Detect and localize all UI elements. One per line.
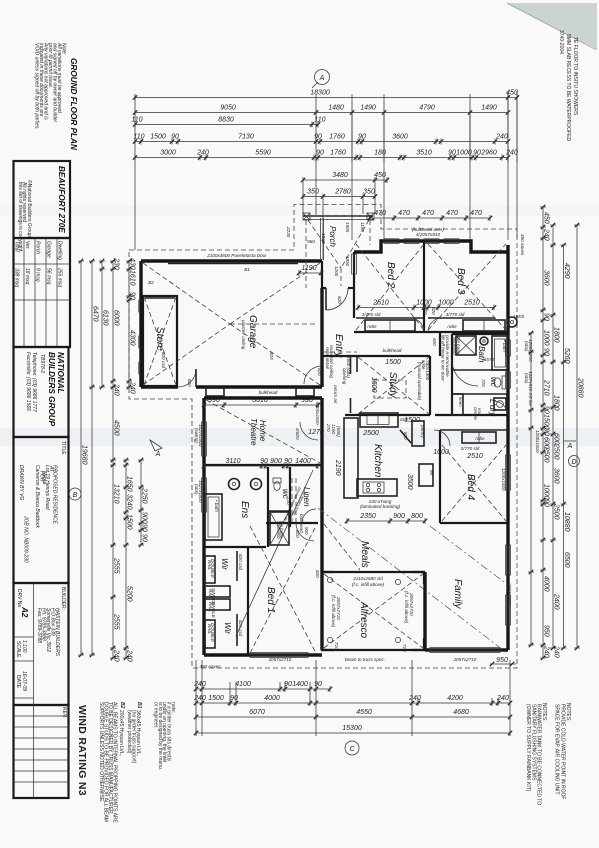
svg-text:A: A (567, 443, 573, 450)
svg-text:1000: 1000 (543, 330, 550, 346)
fixture: ens basins (229, 479, 240, 490)
alfresco posts (322, 638, 334, 650)
porch posts (303, 213, 310, 220)
svg-text:450: 450 (543, 212, 550, 224)
svg-text:(weather protected): (weather protected) (126, 710, 132, 754)
svg-text:240: 240 (196, 149, 209, 156)
svg-text:DRAWN BY VG: DRAWN BY VG (18, 465, 24, 500)
svg-text:350: 350 (363, 188, 375, 195)
kitchen island cooktop (357, 479, 397, 496)
svg-text:3/770 sld: 3/770 sld (362, 312, 381, 317)
svg-text:270: 270 (326, 423, 331, 432)
bulkhead row above home theatre (206, 388, 224, 396)
svg-text:3240: 3240 (126, 494, 133, 510)
wall: bed2/bed3 divider (423, 241, 425, 332)
svg-text:TE FLOOR TO INSITU SHOWERS: TE FLOOR TO INSITU SHOWERS (572, 37, 578, 116)
wall: alfresco (322, 571, 425, 573)
svg-text:470: 470 (398, 210, 410, 217)
svg-text:2230: 2230 (286, 226, 291, 238)
svg-text:HWS: HWS (514, 314, 526, 319)
svg-text:3000: 3000 (160, 149, 176, 156)
dashed diagonals study (358, 357, 429, 414)
svg-text:90: 90 (141, 524, 148, 532)
svg-text:1000: 1000 (433, 449, 449, 456)
svg-text:90: 90 (284, 458, 292, 465)
svg-text:Family: Family (452, 579, 463, 609)
section marker A top (315, 70, 330, 85)
wc door arc (452, 360, 478, 386)
svg-text:240: 240 (543, 228, 550, 241)
svg-text:2500: 2500 (543, 446, 550, 463)
svg-text:(f.c. infill above): (f.c. infill above) (331, 595, 336, 628)
svg-text:470: 470 (446, 210, 458, 217)
svg-text:4000: 4000 (543, 576, 550, 592)
svg-text:1570: 1570 (484, 357, 495, 362)
title block: builder box (14, 583, 69, 705)
windows left wall (202, 422, 207, 456)
wall: porch/entry front (322, 287, 326, 289)
wall: main top (bed2/bed3) with jog (354, 241, 508, 252)
svg-text:robe: robe (367, 324, 377, 329)
svg-text:refer detail: refer detail (325, 347, 330, 370)
svg-text:TB978-2: TB978-2 (39, 354, 45, 373)
title block: NATIONAL BUILDERS GROUP box (14, 347, 69, 437)
porch pier wall (321, 261, 323, 288)
svg-text:470: 470 (470, 210, 482, 217)
svg-text:240: 240 (193, 695, 206, 702)
svg-text:600: 600 (400, 417, 408, 422)
title block: project title box (14, 437, 69, 583)
garage left wall vents (139, 300, 144, 312)
right dim chain window offsets (530, 333, 532, 645)
svg-text:950: 950 (543, 625, 550, 637)
svg-text:90: 90 (141, 534, 148, 542)
svg-text:3480: 3480 (332, 172, 348, 179)
svg-text:1000: 1000 (416, 299, 432, 306)
svg-text:820: 820 (505, 394, 510, 402)
wall: garage outline (139, 261, 142, 387)
fixture: wc toilet (502, 376, 508, 389)
svg-text:1500: 1500 (345, 222, 350, 233)
svg-text:• bath: • bath (502, 340, 507, 352)
svg-text:16-07-09: 16-07-09 (21, 671, 27, 691)
svg-text:240: 240 (129, 381, 136, 394)
svg-text:3/770 sld: 3/770 sld (446, 312, 465, 317)
fixture: shower bath (456, 336, 476, 355)
dashed diagonals alfresco (324, 574, 423, 648)
svg-text:Bed 1: Bed 1 (265, 587, 276, 613)
svg-text:JOB NO. NB009-230: JOB NO. NB009-230 (23, 515, 29, 563)
porch dashed edge (305, 220, 307, 288)
svg-text:(690): (690) (336, 426, 341, 437)
svg-text:18 msq: 18 msq (24, 268, 30, 285)
right dim chain 5260/10880 (563, 245, 565, 648)
svg-text:1900: 1900 (321, 233, 326, 244)
dashed diagonals store (144, 297, 176, 385)
svg-text:1650: 1650 (126, 476, 133, 492)
svg-text:Cameron & Bianca Baddock: Cameron & Bianca Baddock (34, 465, 40, 528)
section marker D right (569, 456, 580, 467)
dim row home theatre (204, 465, 318, 467)
svg-text:1000: 1000 (438, 299, 454, 306)
svg-text:2400: 2400 (553, 593, 560, 610)
svg-text:Garage: Garage (46, 241, 52, 258)
study ceiling light dashed rect (374, 380, 406, 398)
svg-text:4290: 4290 (563, 263, 570, 279)
svg-text:Total: Total (14, 241, 20, 253)
svg-text:1200x1810: 1200x1810 (501, 468, 506, 491)
svg-text:820 csd: 820 csd (161, 352, 166, 369)
svg-text:Meals: Meals (359, 541, 370, 568)
svg-text:1190: 1190 (301, 265, 316, 272)
svg-text:9050: 9050 (220, 104, 236, 111)
title block: BEAUFORT 270E box (14, 161, 71, 238)
robe bed4 (462, 432, 496, 443)
svg-text:2500: 2500 (553, 443, 560, 460)
fixture: bath basin (480, 337, 488, 345)
svg-text:9 msq: 9 msq (35, 268, 41, 282)
wall: kitchen bench (344, 418, 358, 498)
window bottom family 2057x2710 (430, 648, 500, 653)
dim row beds 2510/1000/1000/2510 (358, 307, 494, 309)
top dim row 9050/1480/1490/4790/1490 (135, 112, 508, 114)
svg-text:B: B (73, 492, 78, 499)
svg-text:1200: 1200 (334, 266, 339, 277)
svg-text:470: 470 (422, 210, 434, 217)
fixture: wir double rail upper (205, 556, 215, 583)
svg-text:Alfresco: Alfresco (358, 601, 369, 639)
svg-text:GROUND FLOOR PLAN: GROUND FLOOR PLAN (69, 58, 78, 151)
top dim row 18300 (135, 97, 517, 99)
svg-text:240: 240 (113, 383, 120, 396)
svg-text:Fax: 9789-3788: Fax: 9789-3788 (36, 608, 42, 643)
dashed diagonals garage (hip) (143, 263, 230, 324)
svg-text:430: 430 (129, 258, 136, 270)
svg-text:2510: 2510 (372, 299, 389, 306)
svg-text:(swing): (swing) (194, 428, 199, 443)
svg-text:3600: 3600 (553, 468, 560, 484)
top dim row 470 eave offsets (370, 217, 490, 219)
svg-text:return air: return air (333, 385, 338, 404)
svg-text:RAIL: RAIL (208, 602, 213, 613)
bottom dim row 6070/4550/4680 (196, 716, 510, 718)
svg-text:90: 90 (171, 133, 179, 140)
svg-text:19680: 19680 (81, 445, 88, 465)
svg-text:240: 240 (408, 695, 421, 702)
svg-text:10880: 10880 (563, 512, 570, 532)
svg-text:B2: B2 (148, 280, 154, 285)
windows right wall (506, 340, 511, 356)
svg-text:2960: 2960 (480, 149, 497, 156)
svg-text:820: 820 (317, 368, 322, 376)
svg-text:1950: 1950 (345, 256, 350, 267)
svg-text:2250: 2250 (141, 487, 148, 504)
svg-text:2500: 2500 (362, 430, 379, 437)
svg-text:990: 990 (301, 397, 313, 404)
svg-text:230: 230 (113, 257, 120, 270)
svg-text:TITLE: TITLE (60, 441, 66, 455)
svg-text:linen: linen (458, 397, 463, 407)
wall: study (322, 355, 430, 357)
svg-text:990: 990 (208, 397, 220, 404)
robe band bed2/bed3 (356, 317, 424, 319)
svg-text:B1: B1 (244, 267, 250, 272)
svg-text:950: 950 (496, 657, 508, 664)
svg-text:(manual openable): (manual openable) (417, 362, 422, 401)
svg-text:3110: 3110 (225, 458, 240, 465)
svg-text:4300: 4300 (129, 330, 136, 346)
svg-text:Study: Study (387, 372, 398, 399)
svg-text:SCALE: SCALE (15, 641, 21, 658)
section arrow marker mid-left (150, 440, 162, 451)
window bed2 left wall (352, 254, 357, 274)
svg-text:4/2057x810: 4/2057x810 (416, 232, 440, 237)
top dim row 3000/240/5590 ... (135, 157, 508, 159)
svg-text:2350: 2350 (359, 513, 376, 520)
bottom dim row 240/1500/90/4000 + 240/4200/240 (196, 702, 510, 704)
svg-text:56 msq: 56 msq (46, 268, 52, 285)
svg-text:3500: 3500 (406, 474, 413, 490)
svg-text:720: 720 (481, 379, 486, 387)
svg-text:820 csd: 820 csd (238, 554, 243, 571)
svg-text:1480: 1480 (328, 104, 344, 111)
wall: bed1/wir (247, 547, 249, 655)
svg-text:1000: 1000 (456, 149, 472, 156)
svg-text:1500: 1500 (126, 514, 133, 530)
dashed diagonal home theatre (206, 400, 320, 463)
svg-text:1500: 1500 (208, 695, 224, 702)
svg-text:RAIL: RAIL (207, 560, 212, 571)
svg-text:240: 240 (495, 133, 508, 140)
svg-text:6500: 6500 (563, 552, 570, 568)
svg-text:lift off hinge to wc door: lift off hinge to wc door (441, 335, 446, 381)
dim 1190 porch (299, 272, 321, 274)
svg-text:4200: 4200 (447, 695, 463, 702)
svg-text:wc: wc (489, 377, 498, 387)
svg-text:90: 90 (448, 149, 456, 156)
svg-text:90: 90 (358, 133, 366, 140)
svg-text:BUILDERS GROUP: BUILDERS GROUP (47, 352, 56, 427)
svg-text:2100x4800 PanelMasta Door: 2100x4800 PanelMasta Door (206, 253, 267, 258)
wall: home theatre bottom (204, 464, 322, 466)
svg-text:4680: 4680 (453, 709, 469, 716)
svg-text:240: 240 (126, 649, 133, 662)
svg-text:3610: 3610 (252, 397, 268, 404)
section marker B left (69, 488, 81, 500)
svg-text:robe: robe (475, 436, 485, 441)
svg-text:A: A (155, 451, 161, 458)
svg-text:90: 90 (314, 681, 322, 688)
svg-text:820: 820 (432, 338, 437, 346)
svg-text:1490: 1490 (481, 104, 497, 111)
svg-text:350: 350 (307, 188, 319, 195)
svg-text:2190: 2190 (334, 459, 341, 476)
svg-text:Wir: Wir (220, 558, 229, 570)
svg-text:240: 240 (505, 149, 518, 156)
windows top wall (384, 239, 399, 244)
svg-text:L'dry: L'dry (488, 399, 497, 417)
dashed diagonals bed2 (356, 244, 424, 330)
svg-text:(OWNER TO SUPPLY RAINBANK: (OWNER TO SUPPLY RAINBANK KIT) (525, 704, 531, 792)
svg-text:2780: 2780 (334, 188, 351, 195)
svg-text:SPACE FOR EVAP. AIR COOLIN: SPACE FOR EVAP. AIR COOLING UNIT (554, 704, 560, 795)
svg-text:robe: robe (447, 324, 457, 329)
svg-text:(obs): (obs) (194, 484, 199, 495)
svg-text:1200x1810: 1200x1810 (315, 402, 320, 425)
top dim extension lines (134, 94, 136, 162)
svg-text:bulkhead: bulkhead (259, 390, 278, 395)
svg-text:8830: 8830 (218, 116, 234, 123)
dashed diagonal meals (324, 524, 360, 570)
wall: bottom family (425, 648, 508, 651)
dim -950 bottom right (490, 663, 516, 665)
svg-text:820: 820 (315, 570, 320, 578)
svg-text:800: 800 (411, 513, 423, 520)
svg-text:1800: 1800 (553, 327, 560, 343)
svg-text:255 msq: 255 msq (57, 267, 63, 287)
svg-text:Theatre: Theatre (249, 418, 258, 446)
svg-text:900: 900 (393, 513, 405, 520)
svg-text:20880: 20880 (577, 377, 584, 398)
svg-text:6130: 6130 (102, 310, 109, 326)
section marker C bottom (345, 741, 359, 755)
wall: lower-left block (202, 398, 205, 655)
left dim chain 6000/4500 etc (112, 261, 114, 658)
wall: entry corridor (321, 288, 323, 352)
porch beam lines (303, 215, 373, 217)
svg-text:1200x1810: 1200x1810 (535, 430, 540, 453)
svg-text:1500: 1500 (385, 359, 401, 366)
svg-text:90: 90 (543, 428, 550, 436)
svg-text:1800: 1800 (553, 395, 560, 411)
svg-text:Wir: Wir (223, 622, 232, 634)
HWS unit (507, 317, 517, 327)
svg-text:3600: 3600 (543, 270, 550, 286)
bed2/bed3 door arcs (410, 318, 424, 332)
fixture: shower ens (270, 512, 289, 545)
dim row meals (347, 520, 425, 522)
svg-text:90: 90 (473, 149, 481, 156)
svg-text:820: 820 (337, 296, 342, 304)
svg-text:Porch: Porch (35, 241, 41, 254)
left dim chain 4300/1610 (128, 261, 130, 387)
svg-text:1760: 1760 (330, 149, 346, 156)
svg-text:90: 90 (316, 149, 324, 156)
svg-text:Facsimilie: (03) 9686 1566: Facsimilie: (03) 9686 1566 (25, 352, 31, 411)
svg-text:Ver.: Ver. (24, 241, 30, 250)
svg-text:5MM SLAB RECESS TO BE WATERPRO: 5MM SLAB RECESS TO BE WATERPROOFED (565, 34, 571, 141)
door arc meals hall (434, 430, 450, 446)
svg-text:BEAUFORT 270E: BEAUFORT 270E (57, 166, 66, 233)
svg-text:2110x2680 sld: 2110x2680 sld (352, 576, 383, 581)
wall: ens/wc/linen dividers (267, 467, 269, 547)
svg-text:2555: 2555 (113, 613, 120, 630)
fixture: wir double rail lower (205, 620, 215, 648)
bottom dim row 240/4100/90/1400/90 (196, 688, 330, 690)
svg-text:13210: 13210 (113, 484, 120, 504)
wall: bath/wc/ldry block (439, 332, 441, 356)
ldry door arc (493, 401, 508, 416)
left dim chain lower 2250/900 (140, 460, 142, 545)
svg-text:18300: 18300 (310, 89, 330, 96)
wir door slide dashes (236, 551, 238, 581)
roof truss dash-dot diagonal (meals to family corner) (318, 508, 503, 650)
top dim row 8830/110 (135, 124, 318, 126)
svg-text:710: 710 (402, 644, 407, 652)
svg-text:1610: 1610 (129, 270, 136, 286)
svg-text:5590: 5590 (255, 149, 271, 156)
svg-text:820: 820 (431, 307, 436, 315)
wall: bed4 (439, 430, 441, 523)
svg-text:900: 900 (270, 458, 282, 465)
svg-text:(f.c. infill above): (f.c. infill above) (404, 591, 409, 624)
door ens (302, 509, 316, 523)
svg-text:4000: 4000 (264, 695, 280, 702)
svg-text:REV.: REV. (61, 707, 67, 718)
svg-text:beam to truss spec.: beam to truss spec. (345, 657, 385, 662)
svg-text:Kitchen: Kitchen (372, 444, 383, 478)
svg-text:Bed 2: Bed 2 (385, 262, 396, 289)
wall: right side (506, 245, 509, 650)
right dim chain 20880 (576, 225, 578, 648)
fixture: fridge / pantry (412, 421, 424, 446)
svg-text:A: A (319, 75, 325, 82)
svg-text:or engineer.: or engineer. (152, 702, 158, 728)
svg-text:90: 90 (129, 292, 136, 300)
svg-text:1500: 1500 (370, 377, 377, 393)
svg-text:fer: fer (429, 470, 434, 476)
garage door panel line (168, 263, 298, 265)
top dim row 110/1500/90/7130 ... (135, 141, 508, 143)
svg-text:820: 820 (269, 352, 274, 360)
title block: areas table (14, 238, 71, 347)
bottom extension lines (195, 660, 197, 736)
left dim chain 13210/6470 (91, 261, 93, 655)
svg-text:Garage: Garage (247, 315, 258, 349)
svg-text:338 msq: 338 msq (14, 268, 20, 287)
svg-text:90: 90 (230, 695, 238, 702)
svg-text:Ens: Ens (239, 501, 250, 518)
svg-text:90: 90 (543, 499, 550, 507)
door arc garage to hall (178, 369, 196, 387)
fixture: linen cupboard ldry (452, 394, 463, 415)
svg-text:A2: A2 (20, 606, 29, 618)
folded corner triangle (507, 3, 597, 49)
door bed1 (296, 523, 314, 541)
left dim chain lower 1650/1500 etc (125, 460, 127, 658)
svg-text:1760: 1760 (329, 133, 345, 140)
porch hip dashes (308, 220, 341, 268)
svg-text:15300: 15300 (342, 725, 362, 732)
svg-text:110: 110 (131, 116, 142, 123)
fixture: wc2 toilet (274, 482, 280, 491)
robe band bed3 (463, 320, 505, 331)
svg-text:Bed 3: Bed 3 (455, 268, 466, 295)
dashed diagonals bed4 (442, 445, 506, 521)
svg-text:1400: 1400 (292, 681, 308, 688)
svg-text:820: 820 (295, 530, 300, 538)
svg-text:900x900: 900x900 (452, 337, 457, 355)
svg-text:3740-2004.: 3740-2004. (558, 30, 564, 55)
svg-text:450 eaves: 450 eaves (199, 664, 221, 669)
svg-text:240: 240 (193, 681, 206, 688)
front door arc (325, 288, 327, 310)
svg-text:1490: 1490 (360, 104, 376, 111)
svg-text:RAIL: RAIL (207, 624, 212, 635)
svg-text:centre: centre (473, 407, 478, 420)
svg-text:900: 900 (304, 527, 309, 535)
svg-text:BUILDER:: BUILDER: (60, 587, 66, 610)
